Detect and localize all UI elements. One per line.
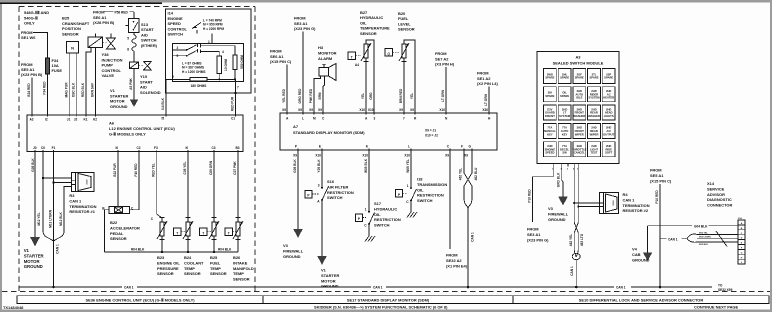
svg-text:L: L [408, 145, 410, 149]
svg-text:CONTINUE NEXT PAGE: CONTINUE NEXT PAGE [694, 305, 738, 310]
SSM A3 sealed switch module [537, 52, 619, 164]
svg-text:T: T [351, 55, 353, 59]
svg-text:V1: V1 [110, 88, 116, 93]
svg-text:F34 RED: F34 RED [43, 81, 47, 95]
svg-text:(X1 PIN E4): (X1 PIN E4) [446, 263, 468, 268]
svg-text:H3: H3 [318, 45, 324, 50]
svg-text:AID: AID [141, 32, 148, 37]
sensor B23 engine oil pressure sensor [151, 214, 181, 276]
wire [68, 53, 70, 115]
svg-text:ACCELERATOR: ACCELERATOR [110, 225, 140, 230]
svg-text:FROM: FROM [270, 49, 282, 54]
svg-text:VALVE: VALVE [102, 73, 115, 78]
svg-text:548G-ⅡⅢ AND: 548G-ⅡⅢ AND [24, 10, 49, 15]
switch I14 engine speed control switch [161, 9, 251, 115]
svg-text:G-Ⅲ MODELS ONLY: G-Ⅲ MODELS ONLY [109, 132, 146, 137]
node FROM SE6 A1 (X28 PIN B) wire P58 RED [93, 10, 134, 25]
svg-text:H = 1200 OHMS: H = 1200 OHMS [182, 70, 205, 74]
svg-text:DIAGNOSTIC: DIAGNOSTIC [707, 197, 732, 202]
svg-text:TERMINATION: TERMINATION [623, 203, 650, 208]
svg-text:M12 BLK: M12 BLK [699, 244, 708, 246]
svg-text:SKIDDER (S.N. 630436—>) SYSTEM: SKIDDER (S.N. 630436—>) SYSTEM FUNCTIONA… [314, 305, 448, 310]
sensor B20 fuel level sensor [385, 11, 415, 113]
note 548G-III models [24, 10, 49, 26]
connector X14 service advisor diagnostic connector [707, 181, 745, 264]
svg-text:10 OHM: 10 OHM [224, 59, 228, 71]
svg-text:(ETHER): (ETHER) [141, 43, 158, 48]
svg-text:7: 7 [237, 86, 239, 90]
valve Y38 injection pump control valve [81, 34, 123, 116]
svg-text:SWITCH: SWITCH [417, 198, 433, 203]
switch I18 transmission oil restriction switch [396, 150, 448, 218]
svg-text:X10: X10 [439, 108, 445, 112]
svg-text:C07 PNK: C07 PNK [233, 161, 237, 175]
svg-text:B27: B27 [360, 10, 368, 15]
svg-text:B25: B25 [210, 255, 218, 260]
svg-text:FROM: FROM [527, 227, 539, 232]
svg-text:RESISTOR #1: RESISTOR #1 [69, 209, 95, 214]
svg-text:X10: X10 [368, 108, 374, 112]
node FROM SE6 A1 (X15 PIN C) [270, 49, 292, 114]
svg-text:X30: X30 [482, 108, 488, 112]
svg-text:HYDRAULIC: HYDRAULIC [360, 15, 383, 20]
switch S17 hydraulic oil restriction switch [356, 150, 401, 242]
svg-text:PUMP: PUMP [102, 63, 114, 68]
svg-text:4: 4 [222, 50, 224, 54]
svg-text:C1: C1 [231, 117, 235, 121]
switch S13 start aid switch (ether) [126, 18, 158, 48]
svg-text:X9: X9 [445, 154, 449, 158]
svg-text:SE6 A1: SE6 A1 [270, 54, 284, 59]
svg-text:KEY: KEY [547, 132, 553, 136]
node FROM SE3 A1 (X23 PIN G) [294, 16, 316, 114]
svg-text:SE1 W6: SE1 W6 [21, 35, 36, 40]
svg-text:OIL: OIL [374, 212, 381, 217]
svg-text:GROUND: GROUND [110, 104, 128, 109]
SSM switch cell grid [544, 69, 616, 157]
svg-text:S13: S13 [141, 22, 149, 27]
resistor R3 CAN 1 termination resistor #1 [37, 152, 97, 232]
sensor B24 coolant temp sensor [174, 152, 205, 277]
svg-text:I14 BLK: I14 BLK [161, 97, 165, 110]
svg-text:FUSE: FUSE [52, 68, 63, 73]
svg-text:SOFT: SOFT [605, 151, 613, 155]
ECU A6 engine control unit [27, 114, 243, 154]
svg-text:SPARE: SPARE [560, 76, 569, 80]
svg-text:B22: B22 [110, 220, 118, 225]
svg-text:SPEED: SPEED [168, 21, 182, 26]
svg-text:L12 ENGINE CONTROL UNIT (ECU): L12 ENGINE CONTROL UNIT (ECU) [109, 126, 175, 131]
pin ticks top [32, 114, 236, 117]
svg-text:BRN: BRN [318, 92, 322, 100]
svg-text:MOTOR: MOTOR [24, 259, 41, 264]
svg-text:SPARE: SPARE [545, 94, 554, 98]
selector arrow [192, 23, 201, 29]
svg-text:ORG: ORG [369, 92, 373, 100]
svg-text:(X15 PIN C): (X15 PIN C) [270, 59, 292, 64]
svg-text:G04 BLK: G04 BLK [694, 224, 708, 228]
chassis ground marks [365, 236, 375, 242]
switch S16 air filter restriction switch [305, 150, 354, 256]
sensor ground bus R04 BLK [105, 248, 238, 253]
sensor B22 accelerator pedal sensor [102, 152, 157, 253]
svg-text:X259: X259 [613, 200, 615, 206]
svg-text:X9: X9 [410, 108, 414, 112]
svg-text:X9: X9 [298, 108, 302, 112]
svg-text:L: L [302, 117, 304, 121]
svg-text:C05 YEL: C05 YEL [183, 162, 187, 175]
svg-text:STARTER: STARTER [24, 253, 45, 258]
svg-text:CAN 1: CAN 1 [373, 286, 383, 290]
svg-text:FROM: FROM [446, 253, 458, 258]
svg-text:SWITCH: SWITCH [141, 38, 157, 43]
svg-text:R3: R3 [69, 193, 75, 198]
svg-text:START: START [141, 27, 154, 32]
svg-text:TEMP: TEMP [210, 266, 221, 271]
svg-text:STANDARD DISPLAY MONITOR (SDM): STANDARD DISPLAY MONITOR (SDM) [293, 130, 365, 135]
svg-text:DISCNT: DISCNT [545, 114, 555, 118]
svg-text:CAB: CAB [632, 252, 641, 257]
wire [95, 48, 97, 116]
svg-text:X9: X9 [399, 108, 403, 112]
svg-text:SE3 A1: SE3 A1 [527, 232, 541, 237]
svg-text:SE1 A2: SE1 A2 [477, 76, 491, 81]
svg-text:TRANSMISSION: TRANSMISSION [417, 182, 447, 187]
svg-text:SPARE: SPARE [589, 76, 598, 80]
svg-text:TEMPERATURE: TEMPERATURE [360, 26, 390, 31]
wire [165, 79, 167, 115]
svg-text:SENSOR: SENSOR [62, 31, 79, 36]
svg-text:I5: I5 [162, 117, 165, 121]
svg-text:SENSOR: SENSOR [210, 271, 227, 276]
svg-text:C3: C3 [212, 146, 216, 150]
svg-text:MOTOR: MOTOR [321, 278, 336, 283]
svg-text:FROM: FROM [477, 71, 489, 76]
svg-text:X10: X10 [362, 154, 368, 158]
svg-text:I2: I2 [45, 118, 48, 122]
svg-text:B26: B26 [233, 255, 241, 260]
svg-text:MAG PUR: MAG PUR [64, 82, 68, 98]
node FROM SE7 A2 (X3 PIN H) [435, 51, 455, 113]
svg-text:C0: C0 [41, 146, 45, 150]
svg-text:R04 BLK: R04 BLK [218, 248, 232, 252]
svg-text:TEMP: TEMP [184, 266, 195, 271]
twisted pair merge CAN 1 (left) [43, 231, 64, 288]
svg-text:G05 BLK: G05 BLK [31, 158, 35, 172]
svg-text:M12 YEL: M12 YEL [37, 212, 41, 225]
svg-text:MOTOR: MOTOR [110, 99, 125, 104]
svg-text:1: 1 [365, 208, 367, 212]
svg-text:CAN 1: CAN 1 [668, 237, 678, 241]
svg-text:1: 1 [407, 184, 409, 188]
svg-text:B25: B25 [62, 16, 70, 21]
svg-text:2: 2 [177, 46, 179, 50]
ground V4 cab ground [632, 247, 652, 263]
svg-text:INJECTION: INJECTION [102, 57, 123, 62]
svg-text:3: 3 [374, 117, 376, 121]
svg-text:RED YEL: RED YEL [152, 163, 156, 177]
svg-text:START: START [140, 79, 153, 84]
CAN 1 bus wire [19, 286, 712, 290]
svg-text:B24 RED: B24 RED [27, 83, 31, 97]
svg-text:SE3 A1: SE3 A1 [294, 21, 308, 26]
wire [33, 33, 48, 59]
inner box [173, 43, 244, 81]
svg-text:PEDAL: PEDAL [110, 231, 124, 236]
svg-text:ORG RED: ORG RED [298, 88, 302, 104]
pin ticks bottom [35, 150, 238, 153]
svg-text:I0: I0 [186, 146, 189, 150]
svg-text:PRESSURE: PRESSURE [157, 266, 179, 271]
CAN 1 branch to X14 [660, 231, 738, 247]
svg-text:J0: J0 [33, 146, 37, 150]
SSM pin stubs [552, 163, 579, 170]
svg-text:CAN 1: CAN 1 [623, 197, 636, 202]
svg-text:(X23 PIN G): (X23 PIN G) [294, 26, 316, 31]
wire [31, 78, 33, 116]
svg-text:8: 8 [127, 48, 129, 52]
svg-text:Y38: Y38 [102, 52, 110, 57]
svg-text:550 OHM: 550 OHM [240, 55, 244, 69]
svg-text:(X28 PIN B): (X28 PIN B) [93, 20, 115, 25]
node FROM SE1 A2 (X2 PIN L4) [477, 71, 498, 114]
svg-text:I0: I0 [116, 146, 119, 150]
svg-text:OIL: OIL [360, 20, 367, 25]
svg-text:X9: X9 [293, 154, 297, 158]
svg-text:SPEED: SPEED [545, 151, 554, 155]
svg-text:X10: X10 [404, 154, 410, 158]
svg-text:IDLE: IDLE [576, 96, 582, 100]
wire to sensor ground bus [105, 210, 109, 252]
ground V1 starter motor ground (mid) [317, 256, 339, 289]
svg-text:FROM: FROM [435, 51, 447, 56]
svg-text:X10 = J2: X10 = J2 [425, 134, 438, 138]
wire [86, 48, 91, 116]
svg-text:V1: V1 [24, 248, 30, 253]
svg-text:CANCEL: CANCEL [574, 151, 586, 155]
svg-text:H = 2200 RPM: H = 2200 RPM [203, 27, 224, 31]
svg-text:INTAKE: INTAKE [233, 260, 248, 265]
svg-text:WASHER: WASHER [573, 114, 585, 118]
node FROM SE1 W6 [21, 30, 48, 58]
svg-text:(X23 PIN B): (X23 PIN B) [21, 72, 43, 77]
svg-text:WIPER: WIPER [590, 132, 599, 136]
svg-text:CAN 1: CAN 1 [124, 286, 134, 290]
svg-text:MONITOR: MONITOR [318, 50, 337, 55]
svg-text:F: F [461, 145, 463, 149]
svg-text:SEALED SWITCH MODULE: SEALED SWITCH MODULE [553, 61, 604, 66]
svg-text:CAN 1: CAN 1 [616, 286, 626, 290]
svg-text:462 YEL: 462 YEL [459, 168, 463, 180]
twisted pair CAN 1 from SSM to R4 and bus [569, 167, 600, 289]
sensor B27 hydraulic oil temperature sensor [348, 10, 390, 113]
svg-text:SE36 ENGINE CONTROL UNIT (ECU): SE36 ENGINE CONTROL UNIT (ECU) (G-Ⅲ MODE… [85, 298, 195, 303]
pin ticks bottom [298, 149, 472, 152]
svg-text:A6: A6 [109, 121, 115, 126]
svg-text:M12 BLK: M12 BLK [59, 211, 63, 225]
svg-text:CAN 1: CAN 1 [69, 198, 82, 203]
svg-text:S17: S17 [374, 201, 382, 206]
svg-text:X14: X14 [707, 181, 715, 186]
node FROM SE5 A1 (X23 PIN B) [21, 62, 43, 115]
svg-text:SE17 STANDARD DISPLAY MONITOR: SE17 STANDARD DISPLAY MONITOR (SDM) [347, 298, 430, 303]
svg-text:SERVICE: SERVICE [707, 186, 725, 191]
svg-text:SYSTEM: SYSTEM [588, 96, 600, 100]
junction on CAN bus [52, 286, 55, 289]
svg-text:RESISTOR #2: RESISTOR #2 [623, 208, 649, 213]
svg-text:TERMINATION: TERMINATION [69, 204, 96, 209]
svg-text:K2: K2 [93, 118, 97, 122]
svg-text:FIREWALL: FIREWALL [548, 211, 569, 216]
switch blades [173, 49, 187, 51]
chassis ground marks [407, 212, 417, 218]
svg-text:TO: TO [718, 284, 723, 288]
svg-text:W09 YEL: W09 YEL [406, 159, 410, 173]
svg-text:X9: X9 [464, 154, 468, 158]
svg-text:N: N [71, 46, 74, 51]
svg-text:F1: F1 [52, 146, 56, 150]
svg-text:FUEL: FUEL [398, 16, 409, 21]
svg-text:M12 YEL: M12 YEL [699, 233, 708, 235]
svg-text:ENGINE OIL: ENGINE OIL [157, 260, 180, 265]
svg-text:FUEL: FUEL [210, 260, 221, 265]
svg-text:B20: B20 [398, 11, 406, 16]
twisted pair CAN 1 from SDM [459, 150, 479, 288]
svg-text:SENSOR: SENSOR [360, 31, 377, 36]
svg-text:V3: V3 [548, 206, 554, 211]
svg-text:WASHER: WASHER [588, 114, 600, 118]
svg-text:ENGINE: ENGINE [168, 16, 183, 21]
pin ticks top [287, 112, 489, 115]
svg-text:CONTROL: CONTROL [168, 26, 188, 31]
sensor B25 fuel temp sensor [200, 152, 227, 277]
svg-text:X10: X10 [359, 108, 365, 112]
svg-text:Y05 BLK: Y05 BLK [317, 159, 321, 173]
node TO SE32 A2 (X1 PIN E4) [446, 150, 468, 268]
svg-text:7: 7 [403, 117, 405, 121]
svg-text:SENSOR: SENSOR [184, 271, 201, 276]
svg-text:T: T [228, 231, 230, 235]
svg-text:SWITCH: SWITCH [327, 195, 343, 200]
svg-text:OUTPUT: OUTPUT [603, 132, 614, 136]
svg-text:M13 LTGRN: M13 LTGRN [48, 209, 52, 228]
svg-text:SE32 X99: SE32 X99 [718, 288, 733, 292]
svg-text:P10 RED: P10 RED [655, 190, 659, 204]
svg-text:TX1484048: TX1484048 [3, 305, 24, 310]
svg-text:B23: B23 [157, 255, 165, 260]
svg-text:X258: X258 [87, 179, 89, 185]
svg-text:540G-Ⅲ: 540G-Ⅲ [24, 15, 38, 20]
svg-text:SE32 A2: SE32 A2 [446, 258, 462, 263]
svg-text:SE10 DIFFERENTIAL LOCK AND SER: SE10 DIFFERENTIAL LOCK AND SERVICE ADVIS… [579, 298, 704, 303]
svg-text:1: 1 [208, 40, 210, 44]
node TO SE32 X99 [718, 284, 733, 292]
SDM A7 standard display monitor [280, 108, 497, 158]
svg-text:P58 RED: P58 RED [115, 10, 129, 14]
svg-text:SE5 A1: SE5 A1 [650, 173, 664, 178]
svg-text:HEATER: HEATER [603, 96, 614, 100]
svg-text:CAN 1: CAN 1 [471, 232, 475, 242]
svg-text:A3: A3 [575, 55, 581, 60]
svg-text:RESTRICTION: RESTRICTION [417, 193, 444, 198]
svg-text:TEST: TEST [591, 151, 598, 155]
svg-text:KEY: KEY [562, 132, 568, 136]
svg-text:ADVISOR: ADVISOR [707, 192, 725, 197]
svg-text:X9: X9 [282, 108, 286, 112]
node FROM SE5 A1 (X15 PIN C) right [650, 168, 672, 289]
svg-text:V4: V4 [632, 247, 638, 252]
svg-text:SW: SW [562, 151, 567, 155]
wire [104, 11, 114, 13]
svg-text:WIPER: WIPER [575, 132, 584, 136]
svg-text:TEMP: TEMP [233, 271, 244, 276]
svg-text:YEL: YEL [410, 93, 414, 99]
wire [133, 69, 135, 100]
svg-text:P10 RED: P10 RED [528, 189, 532, 203]
svg-text:MANIFOLD: MANIFOLD [233, 266, 254, 271]
svg-text:W05 BLK: W05 BLK [364, 158, 368, 173]
svg-text:R4: R4 [623, 192, 629, 197]
svg-text:J2: J2 [74, 118, 78, 122]
wire [235, 79, 237, 115]
svg-text:LIGHTS: LIGHTS [604, 114, 614, 118]
fuse F34 [43, 58, 63, 115]
svg-text:OSC BLK: OSC BLK [71, 82, 75, 97]
title block SE36 [17, 296, 769, 304]
svg-text:462 YEL: 462 YEL [569, 234, 573, 246]
svg-text:T: T [202, 231, 204, 235]
svg-text:SPARE: SPARE [560, 94, 569, 98]
svg-text:(X15 PIN C): (X15 PIN C) [650, 178, 672, 183]
svg-text:(X2 PIN L4): (X2 PIN L4) [477, 81, 498, 86]
svg-text:X10: X10 [315, 154, 321, 158]
svg-text:SENSOR: SENSOR [233, 277, 250, 282]
svg-text:180 OHMS: 180 OHMS [191, 84, 207, 88]
svg-text:HYDRAULIC: HYDRAULIC [374, 206, 397, 211]
svg-text:b: b [172, 75, 174, 79]
svg-text:RESTRICTION: RESTRICTION [374, 217, 401, 222]
svg-text:CAN 1: CAN 1 [570, 266, 574, 276]
svg-text:I18: I18 [417, 177, 423, 182]
svg-text:3: 3 [318, 184, 320, 188]
svg-text:RED BLK: RED BLK [81, 82, 85, 97]
svg-text:FROM: FROM [294, 16, 306, 21]
wire [75, 53, 77, 115]
svg-text:SPARE: SPARE [604, 76, 613, 80]
svg-text:J1: J1 [67, 118, 71, 122]
svg-text:BRN RED: BRN RED [399, 88, 403, 103]
svg-text:SPARE: SPARE [575, 76, 584, 80]
coil element below S13 [127, 33, 136, 62]
wire G04 BLK to X14 [648, 224, 738, 252]
sensor B26 intake manifold temp sensor [225, 152, 254, 282]
wire [201, 46, 235, 55]
node FROM SE3 A1 (X23 PIN G) right [527, 167, 553, 243]
svg-text:LEVEL: LEVEL [398, 21, 411, 26]
sensor B25 crankshaft position sensor [62, 16, 90, 116]
svg-text:GROUND: GROUND [24, 264, 43, 269]
solenoid valve Y19 start aid solenoid [129, 62, 161, 100]
svg-text:POSITION: POSITION [62, 26, 81, 31]
svg-text:LT GRN: LT GRN [484, 93, 488, 105]
svg-text:R04 BLK: R04 BLK [131, 248, 145, 252]
ground V3 firewall ground (right) [548, 167, 569, 222]
svg-text:OIL: OIL [417, 187, 424, 192]
svg-text:GRD BLK: GRD BLK [557, 172, 561, 187]
svg-text:X9: X9 [318, 108, 322, 112]
svg-text:B3: B3 [236, 146, 240, 150]
svg-text:AID: AID [140, 85, 147, 90]
